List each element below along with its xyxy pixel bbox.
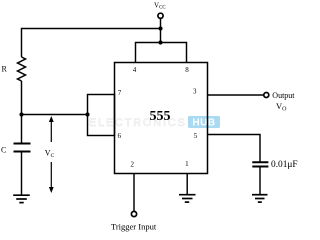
node: junction dot at bracket bbox=[85, 112, 89, 116]
Vcc terminal circle bbox=[158, 13, 163, 18]
svg-text:5: 5 bbox=[194, 132, 198, 140]
wire: pin5 to right capacitor bbox=[208, 135, 261, 163]
svg-text:0.01μF: 0.01μF bbox=[271, 160, 298, 170]
svg-text:555: 555 bbox=[150, 109, 171, 124]
ground (pin 1) bbox=[179, 195, 196, 202]
wire: Vcc drop to pin4/8 bar bbox=[160, 19, 162, 43]
svg-text:Trigger Input: Trigger Input bbox=[111, 221, 157, 231]
svg-text:4: 4 bbox=[133, 66, 137, 74]
wire: top rail from left to Vcc node bbox=[22, 29, 161, 58]
trigger terminal circle bbox=[131, 211, 136, 216]
wire: pin1 to ground bbox=[186, 174, 188, 195]
resistor R bbox=[18, 57, 26, 81]
svg-text:ELECTRONICS: ELECTRONICS bbox=[89, 117, 187, 129]
svg-text:Output: Output bbox=[272, 91, 295, 100]
svg-text:R: R bbox=[2, 64, 8, 73]
svg-text:3: 3 bbox=[193, 88, 197, 96]
svg-text:C: C bbox=[1, 146, 6, 155]
node: junction dot top rail / Vcc bbox=[158, 26, 162, 30]
watermark ELECTRONICS HUB bbox=[89, 116, 220, 129]
ground (right, below 0.01uF) bbox=[252, 195, 268, 202]
wire: left rail resistor to capacitor bbox=[21, 81, 23, 144]
wire: left rail junction to pin6/7 bracket bbox=[22, 114, 88, 116]
svg-text:2: 2 bbox=[130, 161, 134, 169]
svg-text:HUB: HUB bbox=[192, 118, 215, 129]
ground (left, below C) bbox=[13, 195, 30, 202]
output terminal circle bbox=[264, 93, 269, 98]
node: junction dot on pin4/8 bar bbox=[158, 40, 162, 44]
capacitor C bbox=[14, 143, 31, 145]
op IC 555 box U1 bbox=[115, 63, 208, 174]
wire: capacitor to ground bbox=[21, 152, 23, 196]
svg-text:1: 1 bbox=[185, 160, 189, 168]
wire: pin2 to trigger terminal bbox=[133, 174, 135, 211]
svg-text:6: 6 bbox=[118, 132, 122, 140]
wire: pin3 to output terminal bbox=[208, 94, 264, 96]
node: junction dot left rail bbox=[19, 112, 23, 116]
wire: bar connecting pin4 and pin8 stubs bbox=[136, 43, 187, 63]
capacitor 0.01uF bbox=[252, 161, 268, 163]
wire: capacitor to ground bbox=[259, 167, 261, 195]
label Vc with arrows bbox=[45, 116, 55, 193]
svg-text:8: 8 bbox=[185, 66, 189, 74]
wire: bracket rectangle joining pin7 and pin6 bbox=[88, 95, 115, 136]
svg-text:7: 7 bbox=[118, 89, 122, 97]
